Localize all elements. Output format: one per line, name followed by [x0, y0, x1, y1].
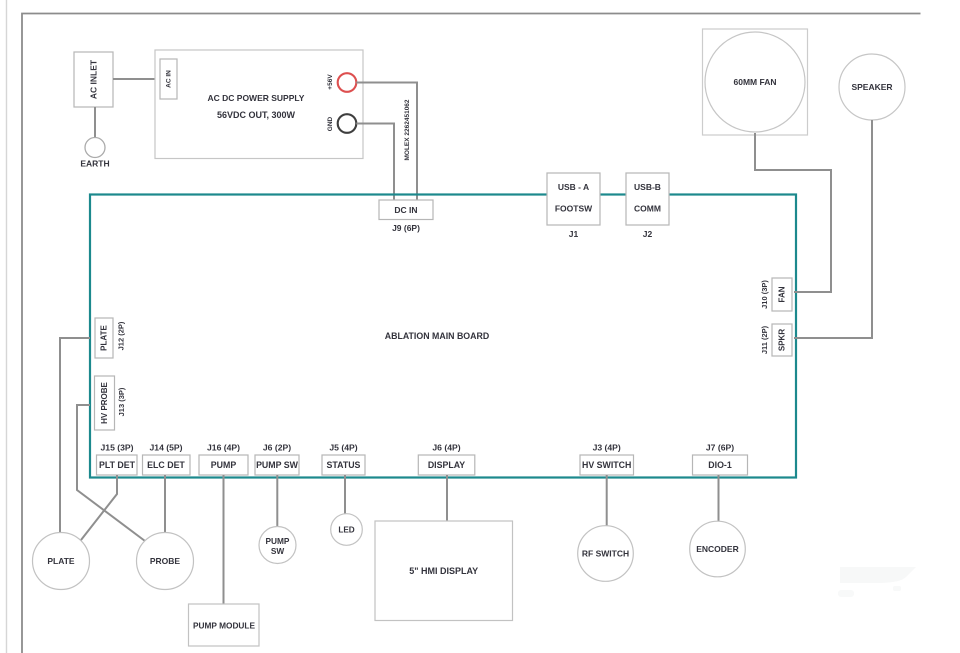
- pump module: [189, 604, 260, 646]
- svg-text:FOOTSW: FOOTSW: [555, 204, 593, 214]
- wire speaker to J11: [794, 120, 872, 338]
- svg-text:J16 (4P): J16 (4P): [207, 443, 240, 453]
- AC IN port: [160, 59, 177, 99]
- svg-text:60MM FAN: 60MM FAN: [734, 77, 777, 87]
- svg-text:J2: J2: [643, 229, 653, 239]
- connector J3 HV SWITCH: [580, 455, 634, 475]
- svg-text:AC INLET: AC INLET: [89, 59, 99, 99]
- pin label J11 (2P): [760, 325, 769, 354]
- svg-text:J14 (5P): J14 (5P): [150, 443, 183, 453]
- connector J11 SPKR: [772, 324, 792, 356]
- pin label J6 (4P): [432, 443, 460, 453]
- connector J16 PUMP: [199, 455, 248, 475]
- svg-text:GND: GND: [327, 116, 334, 131]
- GND terminal: [327, 114, 356, 133]
- svg-text:PLATE: PLATE: [47, 556, 75, 566]
- pump switch: [259, 527, 296, 564]
- speaker: [839, 54, 905, 120]
- svg-text:FAN: FAN: [778, 286, 787, 302]
- svg-text:PLATE: PLATE: [100, 325, 109, 351]
- wire J5 to LED: [344, 475, 346, 515]
- svg-text:HV PROBE: HV PROBE: [100, 381, 109, 423]
- connector J12 PLATE: [95, 318, 113, 358]
- pin label J10 (3P): [760, 280, 769, 309]
- pin label J3 (4P): [593, 443, 621, 453]
- pin label J14 (5P): [150, 443, 183, 453]
- svg-text:AC DC POWER SUPPLY: AC DC POWER SUPPLY: [208, 93, 305, 103]
- svg-text:PUMP SW: PUMP SW: [256, 460, 299, 470]
- AC DC power supply box: [155, 50, 363, 159]
- probe electrode: [137, 533, 194, 590]
- svg-text:+56V: +56V: [327, 74, 334, 90]
- svg-text:J6 (2P): J6 (2P): [263, 443, 291, 453]
- wire J12 to plate electrode: [60, 338, 90, 533]
- wire J3 to RF switch: [606, 475, 608, 527]
- svg-text:USB-B: USB-B: [634, 182, 661, 192]
- connector J6 DISPLAY: [418, 455, 475, 475]
- svg-text:PUMP MODULE: PUMP MODULE: [193, 621, 256, 631]
- svg-text:5" HMI DISPLAY: 5" HMI DISPLAY: [409, 566, 478, 576]
- svg-text:PUMP: PUMP: [266, 536, 290, 546]
- wire +56V to DC IN: [356, 83, 417, 200]
- svg-text:DC IN: DC IN: [394, 205, 417, 215]
- +56V terminal: [327, 73, 356, 92]
- pin label J15 (3P): [101, 443, 134, 453]
- wire J15 to plate electrode: [81, 475, 117, 540]
- wire J7 to encoder: [718, 475, 720, 522]
- wire GND to DC IN: [356, 124, 394, 200]
- AC inlet box: [74, 52, 113, 107]
- svg-text:J3 (4P): J3 (4P): [593, 443, 621, 453]
- svg-text:MOLEX 2262451062: MOLEX 2262451062: [404, 99, 411, 160]
- pin label J9 (6P): [392, 223, 420, 233]
- svg-text:J5 (4P): J5 (4P): [329, 443, 357, 453]
- connector J14 ELC DET: [143, 455, 191, 475]
- svg-text:J6 (4P): J6 (4P): [432, 443, 460, 453]
- svg-text:J12 (2P): J12 (2P): [117, 321, 126, 350]
- svg-text:PLT DET: PLT DET: [99, 460, 136, 470]
- RF switch: [578, 526, 634, 582]
- 5 inch HMI display: [375, 521, 513, 621]
- svg-text:RF SWITCH: RF SWITCH: [582, 549, 629, 559]
- connector J7 DIO-1: [693, 455, 748, 475]
- wire J6 to display: [446, 475, 448, 521]
- svg-text:STATUS: STATUS: [327, 460, 361, 470]
- svg-text:J11 (2P): J11 (2P): [760, 325, 769, 354]
- wire J14 to probe: [164, 475, 166, 533]
- svg-text:56VDC OUT, 300W: 56VDC OUT, 300W: [217, 110, 296, 120]
- svg-text:PROBE: PROBE: [150, 556, 181, 566]
- ablation main board U1: [90, 195, 796, 478]
- connector J13 HV PROBE: [95, 376, 115, 430]
- 60mm fan: [703, 29, 808, 135]
- plate electrode: [33, 533, 90, 590]
- pin label J16 (4P): [207, 443, 240, 453]
- connector J9 DC IN: [379, 200, 433, 220]
- pin label J5 (4P): [329, 443, 357, 453]
- svg-text:DISPLAY: DISPLAY: [428, 460, 465, 470]
- page edge line: [6, 0, 8, 653]
- wire AC inlet to earth: [94, 107, 96, 138]
- svg-text:DIO-1: DIO-1: [708, 460, 732, 470]
- svg-text:USB - A: USB - A: [558, 182, 589, 192]
- svg-text:LED: LED: [338, 526, 354, 535]
- svg-text:ELC DET: ELC DET: [147, 460, 185, 470]
- connector J10 FAN: [772, 278, 792, 311]
- svg-text:J1: J1: [569, 229, 579, 239]
- connector J15 PLT DET: [97, 455, 138, 475]
- wire J16 to pump module: [223, 475, 225, 604]
- svg-text:J9 (6P): J9 (6P): [392, 223, 420, 233]
- svg-text:J15 (3P): J15 (3P): [101, 443, 134, 453]
- cable label MOLEX 2262451062: [404, 99, 411, 160]
- faint watermark smudge: [838, 567, 916, 597]
- svg-text:J7 (6P): J7 (6P): [706, 443, 734, 453]
- svg-text:ABLATION MAIN BOARD: ABLATION MAIN BOARD: [385, 331, 489, 341]
- connector J5 STATUS: [322, 455, 365, 475]
- connector J1 USB-A / FOOTSW: [547, 173, 600, 225]
- pin label J2: [643, 229, 653, 239]
- pin label J13 (3P): [117, 387, 126, 416]
- wire J6 to pump switch: [276, 475, 278, 528]
- svg-text:COMM: COMM: [634, 204, 661, 214]
- pin label J1: [569, 229, 579, 239]
- encoder: [690, 521, 746, 577]
- wire J13 to probe: [77, 405, 145, 541]
- LED indicator: [331, 514, 363, 546]
- svg-text:SPKR: SPKR: [778, 329, 787, 351]
- pin label J7 (6P): [706, 443, 734, 453]
- pin label J6 (2P): [263, 443, 291, 453]
- wire fan to J10: [755, 133, 831, 292]
- wire AC inlet to AC in: [113, 78, 160, 80]
- svg-text:ENCODER: ENCODER: [696, 544, 739, 554]
- svg-text:SW: SW: [271, 546, 285, 556]
- svg-text:PUMP: PUMP: [211, 460, 237, 470]
- connector J2 USB-B / COMM: [626, 173, 669, 225]
- earth terminal: [80, 138, 109, 169]
- svg-text:HV SWITCH: HV SWITCH: [582, 460, 631, 470]
- svg-text:EARTH: EARTH: [80, 159, 109, 169]
- svg-text:J13 (3P): J13 (3P): [117, 387, 126, 416]
- svg-text:SPEAKER: SPEAKER: [851, 82, 892, 92]
- pin label J12 (2P): [117, 321, 126, 350]
- svg-text:J10 (3P): J10 (3P): [760, 280, 769, 309]
- svg-text:AC IN: AC IN: [166, 70, 173, 88]
- connector J6 PUMP SW: [255, 455, 299, 475]
